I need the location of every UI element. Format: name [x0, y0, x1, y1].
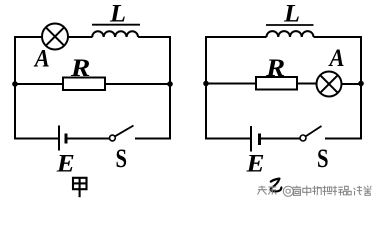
svg-text:L: L [109, 1, 126, 28]
lamp A2 (circle with X) [317, 72, 342, 97]
resistor R2 [256, 77, 297, 90]
char jiang [354, 186, 363, 196]
switch S2 blade [306, 126, 322, 136]
lamp A1 (circle with X) [42, 24, 68, 50]
wire: switch to bottom-right corner [135, 138, 171, 140]
wire: bottom-left corner to battery [14, 138, 58, 140]
node dot right (right circuit) [358, 81, 364, 87]
node dot left (left circuit) [12, 81, 18, 87]
battery E1 long plate [58, 126, 60, 151]
wire: switch to bottom-right corner (right) [325, 138, 362, 140]
svg-text:S: S [116, 144, 128, 173]
char tang [364, 186, 372, 196]
battery E1 short plate [65, 134, 68, 144]
svg-text:S: S [317, 144, 329, 173]
wire: middle branch left (right circuit) [206, 83, 256, 85]
wire: lamp to right edge [342, 83, 362, 85]
wire: lamp to inductor [68, 36, 93, 38]
svg-text:R: R [265, 55, 285, 82]
wire: top-left corner to lamp [14, 36, 42, 38]
wire: battery to switch (right) [261, 138, 301, 140]
node dot left (right circuit) [203, 81, 209, 87]
watermark: at-sign [283, 186, 293, 196]
svg-text:R: R [70, 55, 91, 82]
char jing [333, 186, 343, 196]
caption yi (CJK glyph drawn as path, cursive) [271, 179, 282, 192]
char gao [293, 186, 302, 196]
battery E2 short plate [258, 134, 261, 146]
char zhong [303, 186, 311, 196]
wire: left edge (left circuit) [14, 37, 16, 140]
wire: right edge (left circuit) [169, 36, 171, 140]
resistor R1 [63, 78, 105, 91]
switch S1 blade [115, 126, 134, 137]
inductor L2 core bar [266, 24, 314, 26]
svg-text:E: E [56, 151, 75, 178]
char wu [312, 186, 321, 195]
char pin [343, 186, 351, 195]
caption jia (CJK glyph drawn as path) [73, 178, 87, 197]
wire: inductor to top-right corner [138, 36, 171, 38]
char tou [258, 186, 267, 195]
svg-text:L: L [283, 1, 300, 28]
char li [323, 186, 333, 196]
wire: battery to switch [67, 138, 110, 140]
watermark: channel name (8 CJK chars) [293, 186, 372, 196]
wire: right edge (right circuit) [360, 36, 362, 140]
wire: top-left corner to inductor (right) [205, 36, 267, 38]
wire: left edge (right circuit) [205, 37, 207, 140]
inductor L1 core bar [92, 24, 140, 26]
wire: middle branch left [15, 83, 63, 85]
wire: bottom-left corner to battery (right) [205, 138, 250, 140]
svg-text:A: A [328, 45, 345, 72]
inductor L2 coil [267, 31, 314, 37]
node dot right (left circuit) [167, 81, 173, 87]
char tiao [268, 186, 276, 195]
svg-text:A: A [33, 45, 50, 72]
wire: resistor to lamp (right) [297, 83, 317, 85]
watermark: toutiao gray text [258, 186, 277, 195]
wire: inductor to top-right corner (right) [314, 36, 363, 38]
svg-text:E: E [245, 150, 264, 177]
inductor L1 coil [92, 31, 138, 37]
battery E2 long plate [250, 126, 252, 152]
switch S1 pivot [110, 135, 116, 141]
wire: middle branch right [105, 83, 170, 85]
switch S2 pivot [300, 135, 306, 141]
